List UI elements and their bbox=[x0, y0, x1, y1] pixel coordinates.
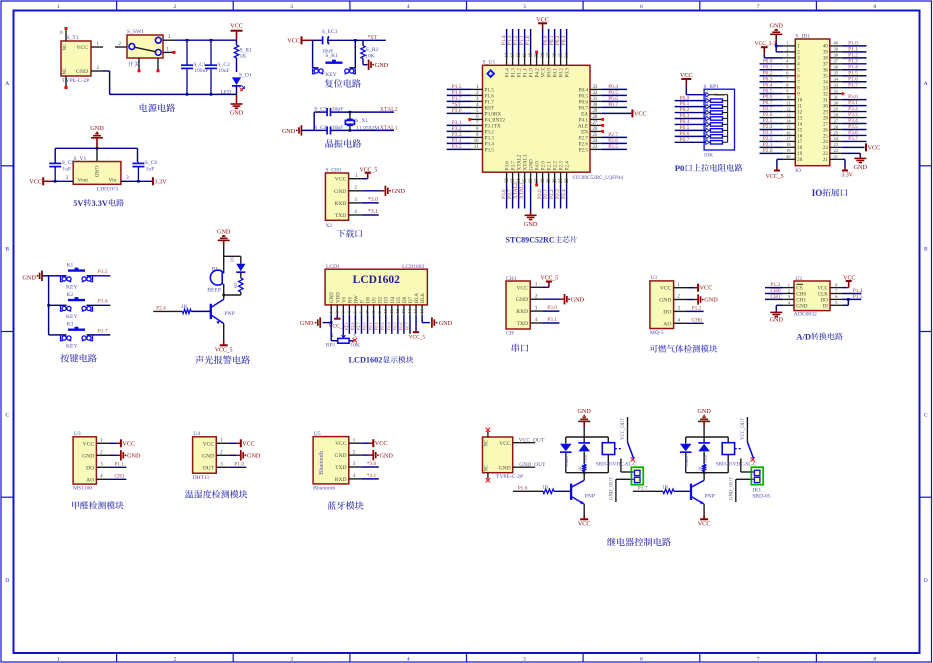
svg-text:27: 27 bbox=[593, 121, 598, 126]
svg-text:S_SW1: S_SW1 bbox=[127, 29, 144, 35]
pin 8 bbox=[783, 87, 795, 89]
VCC power port bbox=[703, 504, 705, 519]
wire node VCC_OUT bbox=[513, 442, 536, 444]
svg-text:CH1: CH1 bbox=[770, 294, 780, 300]
wire node GND_OUT to terminal pin 2 bbox=[736, 478, 752, 480]
svg-text:P0.6: P0.6 bbox=[398, 322, 403, 330]
svg-text:14: 14 bbox=[797, 122, 802, 127]
wire node P0.1 bbox=[675, 106, 706, 108]
resistor R2 bbox=[239, 278, 243, 292]
svg-text:P0.5: P0.5 bbox=[392, 322, 397, 330]
svg-text:VCC: VCC bbox=[29, 178, 42, 185]
svg-text:P0.7: P0.7 bbox=[608, 102, 618, 108]
pin 23 P2.5 bbox=[590, 148, 601, 150]
no-connect marker bbox=[468, 118, 471, 121]
svg-text:D4: D4 bbox=[391, 296, 396, 303]
wire node P3.1 bbox=[842, 105, 867, 107]
svg-text:BLA: BLA bbox=[415, 293, 420, 303]
svg-text:S_X1: S_X1 bbox=[355, 118, 368, 124]
wire node P1.5 bbox=[842, 298, 861, 300]
svg-text:TXD: TXD bbox=[335, 213, 347, 219]
pin 5 bbox=[830, 304, 842, 306]
pin 1 P1.5 bbox=[471, 88, 483, 90]
svg-text:P0.4: P0.4 bbox=[386, 322, 391, 330]
svg-text:1K: 1K bbox=[662, 484, 669, 490]
svg-text:GND: GND bbox=[770, 316, 784, 323]
pin 1 wire to VCC_5 bbox=[530, 286, 542, 288]
wire bbox=[542, 29, 544, 53]
wire GND pin bbox=[96, 148, 98, 161]
svg-text:GND: GND bbox=[82, 453, 94, 459]
svg-text:P3.5: P3.5 bbox=[485, 147, 495, 153]
title 甲醛检测模块 bbox=[72, 501, 123, 509]
svg-text:GND_OUT: GND_OUT bbox=[519, 462, 546, 468]
no-connect marker pin 32 bbox=[842, 92, 845, 96]
svg-text:25: 25 bbox=[823, 134, 828, 139]
wire to VCC power port bbox=[601, 112, 631, 114]
svg-text:GND: GND bbox=[76, 69, 88, 75]
wire node P1.3 bbox=[842, 63, 867, 65]
svg-text:40: 40 bbox=[823, 45, 828, 50]
svg-text:P0.0: P0.0 bbox=[362, 322, 367, 330]
pin 23 bbox=[830, 146, 842, 148]
svg-text:3: 3 bbox=[290, 657, 293, 663]
svg-text:30pF: 30pF bbox=[332, 107, 344, 113]
pin 38 VCC bbox=[542, 53, 544, 65]
capacitor S_C6 1uF bbox=[137, 162, 139, 163]
svg-text:19: 19 bbox=[547, 178, 552, 183]
svg-text:P0.7: P0.7 bbox=[404, 322, 409, 330]
svg-text:XTAL1: XTAL1 bbox=[380, 125, 398, 131]
svg-text:26: 26 bbox=[593, 127, 598, 132]
pin 11 D4 bbox=[391, 305, 393, 315]
svg-text:GND: GND bbox=[577, 408, 591, 415]
svg-text:33: 33 bbox=[823, 86, 828, 91]
svg-text:PNP: PNP bbox=[225, 311, 235, 317]
pin 4 bbox=[783, 63, 795, 65]
pin 2 wire to ground bbox=[530, 298, 542, 300]
wire node P0.4 bbox=[760, 87, 784, 89]
svg-text:P2.4: P2.4 bbox=[561, 189, 567, 199]
wire node P1.4 bbox=[842, 293, 861, 295]
svg-text:GND: GND bbox=[375, 62, 389, 69]
svg-text:18: 18 bbox=[797, 146, 802, 151]
wire node P1.0 bbox=[842, 45, 867, 47]
pin 36 bbox=[830, 69, 842, 71]
title 晶振电路 bbox=[325, 139, 361, 148]
wire node P2.6 bbox=[601, 142, 627, 144]
relay contact SRD-05VDC-SL-C bbox=[627, 417, 629, 442]
svg-text:40: 40 bbox=[529, 52, 534, 57]
wire node P0.5 bbox=[675, 129, 706, 131]
svg-text:CH1: CH1 bbox=[114, 473, 124, 479]
wire node P0.0 bbox=[548, 29, 550, 53]
svg-text:DI: DI bbox=[823, 303, 829, 309]
pin 15 BLA bbox=[415, 305, 417, 315]
svg-text:IO: IO bbox=[812, 188, 823, 198]
switch S_SW1 bbox=[127, 35, 163, 58]
pin 12 D5 bbox=[397, 305, 399, 315]
svg-text:VCC: VCC bbox=[516, 285, 528, 291]
svg-text:1: 1 bbox=[706, 89, 708, 94]
svg-text:4: 4 bbox=[407, 4, 410, 10]
pin 31 bbox=[830, 99, 842, 101]
wire node P2.3 bbox=[760, 134, 784, 136]
svg-text:1: 1 bbox=[786, 41, 788, 46]
wire node P2.7 bbox=[601, 136, 627, 138]
title 继电器控制电路 bbox=[607, 538, 671, 547]
resistor 1K bbox=[702, 465, 706, 472]
svg-text:GND: GND bbox=[524, 221, 538, 228]
svg-text:43: 43 bbox=[511, 52, 516, 57]
wire node XTAL1 bbox=[524, 185, 526, 209]
VCC_5 power port pin2 bbox=[336, 315, 338, 319]
pin 10 bbox=[783, 99, 795, 101]
svg-text:5: 5 bbox=[706, 113, 708, 118]
wire pin1 GND to ground bbox=[330, 315, 332, 323]
svg-text:V0: V0 bbox=[342, 296, 347, 303]
svg-text:MQ-5: MQ-5 bbox=[650, 330, 664, 336]
pin 13 D6 bbox=[403, 305, 405, 315]
wire node P0.4 bbox=[675, 123, 706, 125]
wire node P0.4 bbox=[391, 315, 393, 334]
svg-text:8: 8 bbox=[706, 131, 708, 136]
svg-text:OUT: OUT bbox=[203, 465, 215, 471]
svg-text:LED: LED bbox=[703, 454, 708, 462]
pin 20 P2.2 bbox=[554, 172, 556, 184]
pin 43 P1.3 bbox=[512, 53, 514, 65]
svg-text:22: 22 bbox=[565, 178, 570, 183]
svg-text:PNP: PNP bbox=[585, 493, 595, 499]
svg-text:S_C3: S_C3 bbox=[314, 107, 327, 113]
svg-text:D6: D6 bbox=[403, 296, 408, 303]
pin 5 RW bbox=[354, 305, 356, 315]
wire node GND_OUT bbox=[513, 466, 536, 468]
pin 0 top of S_T1 bbox=[65, 29, 67, 42]
svg-text:38: 38 bbox=[823, 57, 828, 62]
pin 2 bbox=[783, 51, 795, 53]
wire node P3.3 bbox=[842, 117, 867, 119]
ground right bbox=[431, 317, 433, 327]
svg-text:21: 21 bbox=[834, 154, 838, 159]
wire to terminal pin 1 bbox=[620, 459, 622, 473]
svg-text:KEY: KEY bbox=[66, 344, 78, 350]
wire node P3.0 bbox=[842, 99, 867, 101]
wire switch pin3 to VCC rail bbox=[163, 39, 175, 41]
pin 4 node P3.1 bbox=[530, 322, 542, 324]
pin 40 P1.0 bbox=[530, 53, 532, 65]
svg-text:GND: GND bbox=[380, 452, 394, 459]
svg-text:2: 2 bbox=[174, 4, 177, 10]
svg-text:GND: GND bbox=[330, 292, 335, 303]
svg-text:25: 25 bbox=[593, 133, 598, 138]
svg-text:P2.5: P2.5 bbox=[608, 144, 618, 150]
title 串口 bbox=[512, 344, 529, 352]
svg-text:21: 21 bbox=[823, 158, 828, 163]
svg-text:Bluetooth: Bluetooth bbox=[313, 486, 335, 492]
svg-text:15: 15 bbox=[797, 128, 802, 133]
svg-text:S_K1: S_K1 bbox=[325, 53, 338, 59]
pin 34 bbox=[830, 81, 842, 83]
svg-text:JK1: JK1 bbox=[752, 487, 761, 493]
svg-text:AO: AO bbox=[86, 477, 94, 483]
svg-text:GND: GND bbox=[659, 298, 671, 304]
svg-text:VCC: VCC bbox=[843, 275, 855, 281]
pin 10 P3.4 bbox=[471, 142, 483, 144]
svg-text:VCC: VCC bbox=[700, 285, 713, 292]
svg-text:XTAL2: XTAL2 bbox=[380, 107, 398, 113]
svg-text:30: 30 bbox=[823, 104, 828, 109]
svg-text:VCC: VCC bbox=[76, 45, 88, 51]
svg-text:NC: NC bbox=[484, 465, 489, 472]
pin 39 P4.2 bbox=[536, 53, 538, 65]
svg-text:*ST: *ST bbox=[368, 35, 378, 41]
wire node P3.5 bbox=[842, 128, 867, 130]
svg-text:Bluetooth: Bluetooth bbox=[319, 451, 325, 475]
diode 1N4007 bbox=[560, 444, 572, 452]
svg-text:P3.7: P3.7 bbox=[98, 328, 108, 334]
svg-text:K3: K3 bbox=[67, 322, 74, 328]
ground left bbox=[319, 317, 321, 327]
connector TYPE-C-2P power output bbox=[483, 437, 513, 473]
wire bbox=[223, 284, 225, 295]
wire node P2.2 bbox=[760, 140, 784, 142]
wire node P0.6 bbox=[760, 99, 784, 101]
svg-text:CH0: CH0 bbox=[692, 317, 702, 323]
svg-text:35: 35 bbox=[823, 75, 828, 80]
svg-text:34: 34 bbox=[565, 52, 570, 57]
svg-text:P2.4: P2.4 bbox=[565, 161, 571, 171]
svg-text:17: 17 bbox=[797, 140, 802, 145]
wire pin 23 to VCC bbox=[842, 146, 865, 148]
svg-text:VCC_5: VCC_5 bbox=[540, 276, 558, 282]
title 下载口 bbox=[337, 229, 362, 237]
svg-text:42: 42 bbox=[517, 52, 522, 57]
pin 8 D1 bbox=[373, 305, 375, 315]
svg-text:KEY: KEY bbox=[325, 72, 337, 78]
pin 18 bbox=[783, 146, 795, 148]
pin 28 P4.1 bbox=[590, 118, 601, 120]
svg-text:VCC: VCC bbox=[203, 441, 215, 447]
pin 4 RST bbox=[471, 106, 483, 108]
svg-text:1K: 1K bbox=[577, 466, 582, 471]
svg-text:39: 39 bbox=[823, 51, 828, 56]
svg-text:TXD: TXD bbox=[517, 321, 529, 327]
svg-text:S_C2: S_C2 bbox=[218, 62, 231, 68]
pin 11 bbox=[783, 105, 795, 107]
wire node P0.2 bbox=[675, 112, 706, 114]
wire node P1.1 bbox=[524, 29, 526, 53]
wire node P3.1 bbox=[447, 124, 471, 126]
svg-text:VCC: VCC bbox=[868, 144, 881, 151]
wire node P2.0 bbox=[542, 185, 544, 209]
pin 3 V0 bbox=[342, 305, 344, 315]
wire node P0.1 bbox=[760, 69, 784, 71]
svg-text:KEY: KEY bbox=[66, 314, 78, 320]
svg-text:29: 29 bbox=[593, 109, 598, 114]
svg-text:31: 31 bbox=[593, 97, 598, 102]
svg-text:38: 38 bbox=[541, 52, 546, 57]
wire base node P1.6 bbox=[513, 490, 543, 492]
svg-text:DO: DO bbox=[86, 465, 94, 471]
svg-text:37: 37 bbox=[547, 52, 552, 57]
svg-text:VCC: VCC bbox=[499, 441, 511, 447]
svg-text:RS: RS bbox=[348, 297, 353, 303]
svg-text:2: 2 bbox=[706, 95, 708, 100]
ground bbox=[236, 94, 238, 104]
svg-text:8: 8 bbox=[873, 4, 876, 10]
svg-text:32: 32 bbox=[834, 88, 838, 93]
pin 11 P3.5 bbox=[471, 148, 483, 150]
pin 5 P3.0RX bbox=[471, 112, 483, 114]
wire node P0.5 bbox=[397, 315, 399, 334]
wire bottom bbox=[301, 129, 326, 131]
pin 4 wire node *3.1 bbox=[349, 214, 362, 216]
wire node P1.4 bbox=[506, 29, 508, 53]
svg-text:BLK: BLK bbox=[421, 293, 426, 303]
svg-text:STC89C52RC: STC89C52RC bbox=[506, 235, 555, 244]
svg-text:22: 22 bbox=[834, 148, 838, 153]
wire node P1.2 bbox=[842, 57, 867, 59]
wire node P0.4 bbox=[601, 88, 627, 90]
svg-text:3.3V: 3.3V bbox=[842, 173, 854, 179]
wire node P3.2 bbox=[447, 130, 471, 132]
svg-text:LCD1602: LCD1602 bbox=[349, 356, 383, 365]
wire node P1.7 bbox=[447, 100, 471, 102]
svg-text:11: 11 bbox=[474, 145, 479, 150]
svg-text:Com: Com bbox=[715, 92, 724, 97]
svg-text:GND: GND bbox=[854, 164, 868, 171]
wire node P0.7 bbox=[601, 106, 627, 108]
svg-text:DO: DO bbox=[663, 309, 671, 315]
svg-text:5V: 5V bbox=[73, 199, 83, 208]
wire DI to DO bbox=[842, 304, 848, 306]
title 可燃气体检测模块 bbox=[650, 345, 717, 353]
svg-text:AO: AO bbox=[663, 321, 671, 327]
pin 22 bbox=[830, 152, 842, 154]
wire left vertical bbox=[313, 112, 315, 130]
wire node P3.6 bbox=[506, 185, 508, 209]
key K3 bbox=[49, 334, 61, 336]
wire node P0.5 bbox=[601, 94, 627, 96]
pin 37 bbox=[830, 63, 842, 65]
svg-text:36: 36 bbox=[553, 52, 558, 57]
switch bottom stubs bbox=[138, 58, 140, 70]
svg-text:CH: CH bbox=[506, 331, 514, 337]
svg-text:22: 22 bbox=[823, 152, 828, 157]
svg-text:GND: GND bbox=[93, 166, 99, 178]
svg-text:P3.0: P3.0 bbox=[547, 305, 557, 311]
wire node P0.2 bbox=[760, 75, 784, 77]
wire top bbox=[314, 111, 327, 113]
wire node P0.6 bbox=[601, 100, 627, 102]
svg-text:P3.5: P3.5 bbox=[452, 144, 462, 150]
svg-text:VCC_OUT: VCC_OUT bbox=[741, 418, 746, 440]
pin 13 bbox=[783, 117, 795, 119]
svg-text:1K: 1K bbox=[240, 53, 247, 59]
pin 27 bbox=[830, 123, 842, 125]
resistor 1K bbox=[582, 465, 586, 472]
pin 10 D3 bbox=[385, 305, 387, 315]
svg-text:GND: GND bbox=[217, 229, 231, 236]
svg-text:*3.1: *3.1 bbox=[368, 209, 378, 215]
VCC_5 power port bbox=[367, 173, 369, 179]
svg-text:P2.0: P2.0 bbox=[763, 148, 773, 154]
svg-text:LED: LED bbox=[583, 454, 588, 462]
svg-text:29: 29 bbox=[823, 110, 828, 115]
pin 3 P1.7 bbox=[471, 100, 483, 102]
transistor PNP bbox=[690, 484, 692, 500]
svg-text:RP1: RP1 bbox=[326, 342, 336, 348]
svg-text:GND: GND bbox=[704, 297, 718, 304]
pin 4 RS bbox=[348, 305, 350, 315]
svg-text:D: D bbox=[5, 578, 9, 584]
svg-text:RW: RW bbox=[354, 295, 359, 303]
pin 36 P0.1 bbox=[554, 53, 556, 65]
wire node P1.2 bbox=[518, 29, 520, 53]
pin 34 P0.3 bbox=[566, 53, 568, 65]
pin 24 bbox=[830, 140, 842, 142]
svg-text:34: 34 bbox=[823, 81, 828, 86]
pin 25 bbox=[830, 134, 842, 136]
svg-text:10uF: 10uF bbox=[218, 68, 230, 74]
svg-text:GND: GND bbox=[334, 189, 346, 195]
svg-text:GND: GND bbox=[392, 188, 406, 195]
svg-text:VCC: VCC bbox=[335, 441, 347, 447]
resistor 1K bbox=[182, 309, 191, 313]
title 复位电路 bbox=[325, 79, 361, 88]
wire node CH1 bbox=[765, 298, 783, 300]
ground bbox=[363, 64, 368, 66]
wire node P1.0 bbox=[530, 29, 532, 53]
pin 7 bbox=[830, 293, 842, 295]
svg-text:12: 12 bbox=[786, 106, 790, 111]
relay contact SRD-05VDC-SL-C bbox=[746, 417, 748, 442]
connector S_T1 TYPE-C-2P bbox=[61, 41, 91, 76]
wire bbox=[703, 427, 705, 437]
svg-text:11: 11 bbox=[786, 100, 790, 105]
wire base node P2.4 bbox=[153, 310, 182, 312]
svg-text:41: 41 bbox=[523, 52, 528, 57]
pin 8 bbox=[830, 287, 842, 289]
wire node P0.3 bbox=[760, 81, 784, 83]
svg-text:S_R2: S_R2 bbox=[366, 47, 379, 53]
svg-text:RXD: RXD bbox=[516, 309, 528, 315]
svg-text:RXD: RXD bbox=[335, 477, 347, 483]
pin 14 D7 bbox=[409, 305, 411, 315]
label 开关 bbox=[128, 61, 140, 67]
svg-text:1: 1 bbox=[788, 282, 790, 287]
wire pin3 V0 to potentiometer wiper bbox=[342, 315, 344, 335]
svg-text:1uF: 1uF bbox=[62, 166, 71, 172]
svg-text:28: 28 bbox=[593, 115, 598, 120]
wire node P1.5 bbox=[842, 75, 867, 77]
svg-text:1K: 1K bbox=[542, 484, 549, 490]
svg-text:GND: GND bbox=[22, 275, 36, 282]
wire node P2.6 bbox=[760, 117, 784, 119]
svg-text:3.3V: 3.3V bbox=[92, 199, 108, 208]
pin 12 bbox=[783, 111, 795, 113]
pin 8 P3.2 bbox=[471, 130, 483, 132]
pin 16 GND bbox=[530, 172, 532, 184]
svg-text:VCC: VCC bbox=[375, 440, 388, 447]
wire base node P1.7 bbox=[633, 490, 663, 492]
svg-text:9: 9 bbox=[706, 137, 708, 142]
LED indicator bbox=[703, 437, 705, 442]
svg-text:*3.0: *3.0 bbox=[367, 461, 377, 467]
wire node P1.3 bbox=[512, 29, 514, 53]
svg-text:11: 11 bbox=[389, 309, 394, 313]
